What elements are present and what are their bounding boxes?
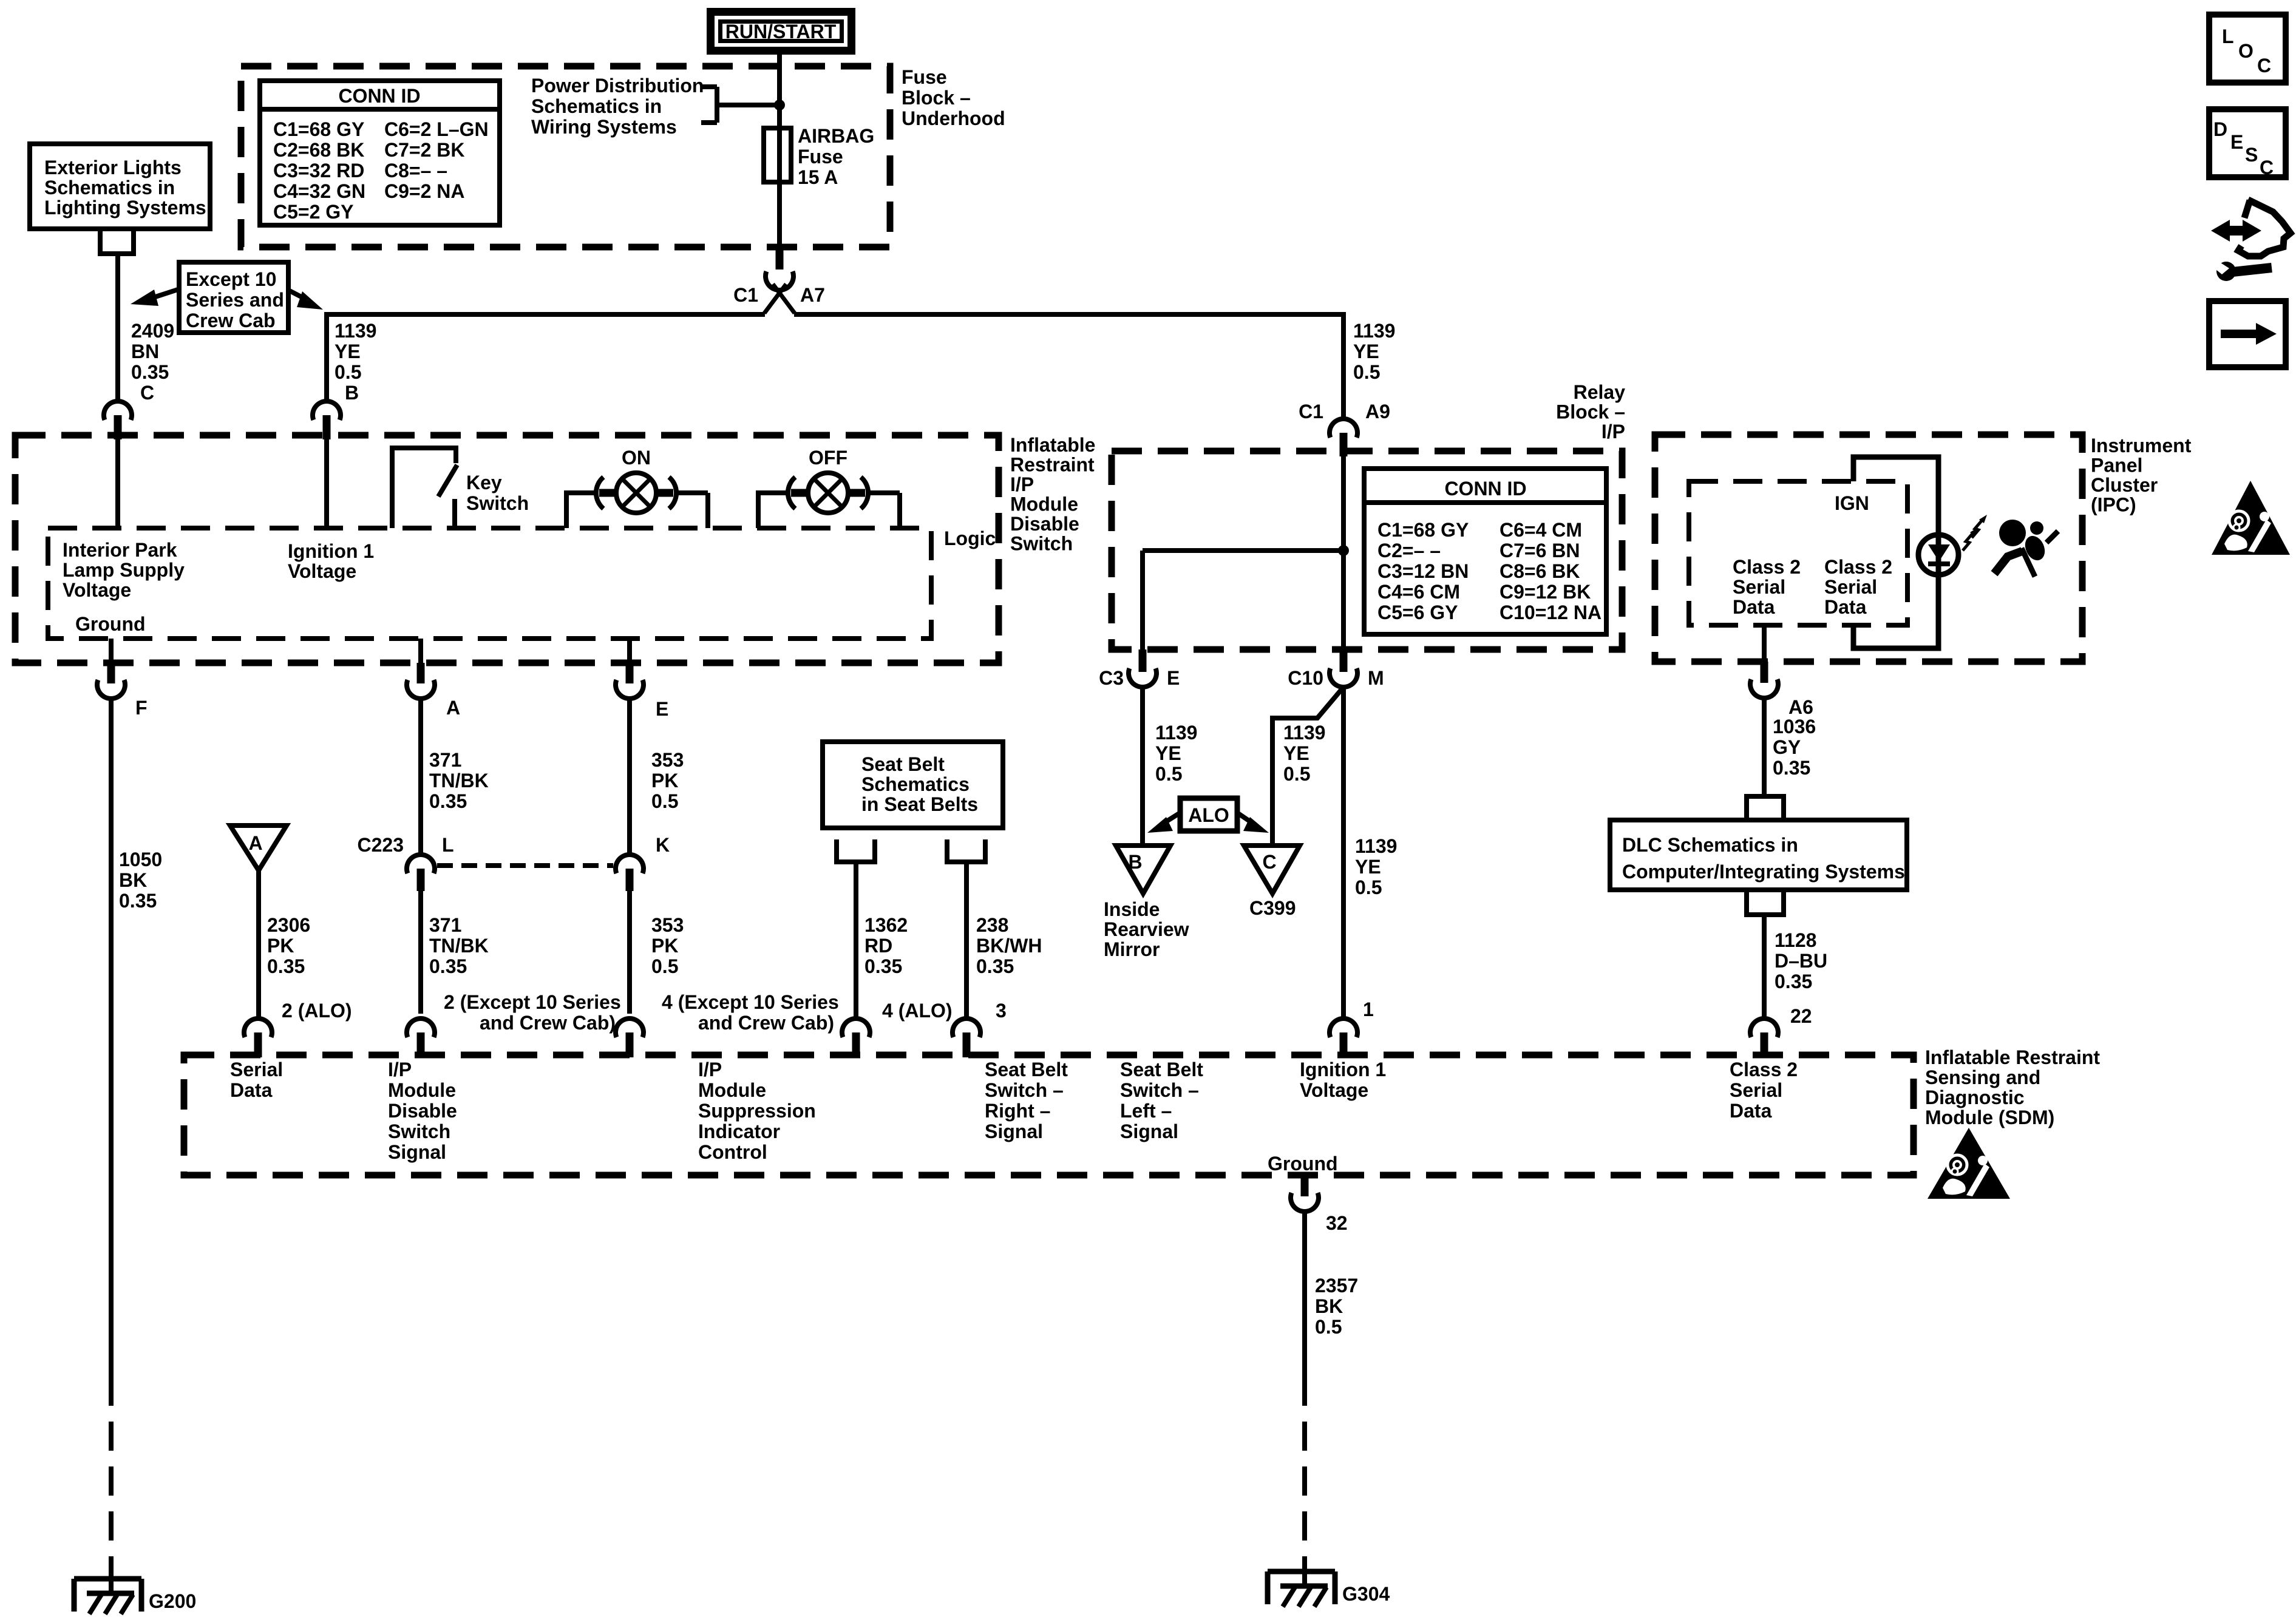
svg-text:Module (SDM): Module (SDM) <box>1925 1107 2054 1128</box>
note Power Distribution Schematics in Wiring Systems <box>531 75 704 138</box>
wire 353 PK lower <box>630 891 684 1014</box>
label Instrument Panel Cluster IPC <box>2091 435 2192 516</box>
svg-text:C6=4 CM: C6=4 CM <box>1500 519 1582 541</box>
svg-text:238: 238 <box>976 914 1008 936</box>
bracket below exterior lights box <box>100 229 134 254</box>
svg-text:353: 353 <box>651 914 684 936</box>
wire relay block internal vertical <box>1341 456 1346 649</box>
svg-text:Wiring Systems: Wiring Systems <box>531 116 677 138</box>
svg-text:GY: GY <box>1773 736 1801 758</box>
svg-text:YE: YE <box>1283 742 1309 764</box>
svg-text:Data: Data <box>1824 596 1867 618</box>
svg-text:Left –: Left – <box>1120 1100 1172 1122</box>
connector C10 cavity M out of relay block <box>1288 649 1384 689</box>
svg-text:Serial: Serial <box>1730 1079 1782 1101</box>
svg-text:I/P: I/P <box>1010 473 1034 495</box>
svg-text:Suppression: Suppression <box>698 1100 816 1122</box>
svg-text:Series and: Series and <box>186 289 284 311</box>
svg-text:Underhood: Underhood <box>902 107 1005 129</box>
arrow left from callout <box>131 289 180 306</box>
svg-text:YE: YE <box>335 341 361 362</box>
svg-text:353: 353 <box>651 749 684 771</box>
icon box DESC <box>2209 109 2286 178</box>
svg-text:Seat Belt: Seat Belt <box>1120 1059 1203 1080</box>
inner logic dashed box <box>48 528 931 639</box>
label Relay Block I/P <box>1556 381 1625 442</box>
svg-text:G304: G304 <box>1342 1583 1390 1605</box>
svg-text:0.35: 0.35 <box>429 790 467 812</box>
wire interior park lamp into logic <box>115 439 120 528</box>
svg-text:Fuse: Fuse <box>798 146 843 168</box>
wire 2409 BN drop <box>118 254 174 404</box>
svg-text:2 (ALO): 2 (ALO) <box>282 1000 352 1022</box>
pin label IP Module Disable Switch Signal <box>388 1059 457 1163</box>
connector C3 cavity E out of relay block <box>1099 649 1180 689</box>
svg-text:Switch –: Switch – <box>985 1079 1064 1101</box>
svg-text:0.35: 0.35 <box>864 955 902 977</box>
svg-text:0.5: 0.5 <box>335 361 361 383</box>
svg-text:E: E <box>1167 667 1180 689</box>
svg-text:1050: 1050 <box>119 849 162 870</box>
svg-text:PK: PK <box>651 935 678 957</box>
svg-text:Block –: Block – <box>1556 401 1625 423</box>
svg-text:O: O <box>2238 40 2254 62</box>
svg-text:0.35: 0.35 <box>1773 757 1810 779</box>
airbag warning LED <box>1918 535 1958 575</box>
svg-text:Class 2: Class 2 <box>1733 556 1801 578</box>
wire 371 TN/BK lower <box>421 891 489 1014</box>
dashed box Inflatable Restraint Sensing and Diagnostic Module <box>184 1055 1914 1175</box>
svg-text:371: 371 <box>429 914 461 936</box>
svg-text:Mirror: Mirror <box>1104 938 1160 960</box>
wire IPC lamp loop <box>1853 457 1938 648</box>
pin label Class 2 Serial Data SDM <box>1730 1059 1798 1122</box>
svg-text:Voltage: Voltage <box>1300 1079 1368 1101</box>
off-page triangle C C399 <box>1244 846 1300 893</box>
svg-text:C7=2 BK: C7=2 BK <box>384 139 465 161</box>
connector E out of disable switch <box>616 639 668 720</box>
svg-text:C: C <box>2260 157 2274 178</box>
svg-text:C5=2 GY: C5=2 GY <box>273 201 354 223</box>
dashed box Relay Block I/P <box>1112 451 1622 649</box>
svg-text:1: 1 <box>1363 998 1374 1020</box>
wire ignition 1 into logic <box>324 439 329 528</box>
callout box Except 10 Series and Crew Cab <box>179 262 288 333</box>
pin label Ignition 1 Voltage logic <box>288 540 374 582</box>
SDM airbag warning triangle <box>1927 1128 2010 1199</box>
icon diagnostic wrench <box>2211 200 2291 281</box>
wire 1036 GY <box>1764 698 1816 796</box>
svg-text:0.5: 0.5 <box>1315 1316 1342 1338</box>
svg-text:0.5: 0.5 <box>1155 763 1182 785</box>
svg-text:Disable: Disable <box>388 1100 457 1122</box>
bracket and junction dot to feed wire <box>701 87 785 123</box>
power feed box RUN/START <box>711 12 852 51</box>
svg-text:Relay: Relay <box>1574 381 1626 403</box>
pin label Ground logic <box>75 613 146 635</box>
svg-text:15 A: 15 A <box>798 166 838 188</box>
wire 2306 PK serial data <box>259 870 310 1019</box>
svg-text:Interior Park: Interior Park <box>63 539 177 561</box>
svg-text:0.5: 0.5 <box>1353 361 1380 383</box>
svg-text:and Crew Cab): and Crew Cab) <box>698 1012 834 1034</box>
svg-text:A9: A9 <box>1365 401 1390 422</box>
svg-text:Fuse: Fuse <box>902 66 947 88</box>
svg-text:I/P: I/P <box>388 1059 412 1080</box>
svg-text:Indicator: Indicator <box>698 1120 780 1142</box>
svg-text:Exterior Lights: Exterior Lights <box>44 157 182 178</box>
svg-text:2357: 2357 <box>1315 1275 1358 1297</box>
svg-text:C4=6 CM: C4=6 CM <box>1377 581 1460 603</box>
connector seat belt right into SDM <box>842 1000 953 1057</box>
svg-text:C6=2 L–GN: C6=2 L–GN <box>384 118 489 140</box>
pin label Ground SDM <box>1268 1153 1338 1175</box>
svg-text:Inside: Inside <box>1104 898 1160 920</box>
connector suppression indicator into SDM <box>616 991 839 1057</box>
svg-text:Inflatable Restraint: Inflatable Restraint <box>1925 1046 2100 1068</box>
svg-text:C8=– –: C8=– – <box>384 160 447 181</box>
pin label Interior Park Lamp Supply Voltage <box>63 539 185 601</box>
svg-text:Data: Data <box>1730 1100 1772 1122</box>
junction dot relay block <box>1338 545 1349 556</box>
wire 371 TN/BK upper <box>421 698 489 856</box>
svg-text:D: D <box>2213 118 2227 140</box>
svg-text:YE: YE <box>1353 341 1379 362</box>
svg-text:0.5: 0.5 <box>1355 876 1382 898</box>
svg-text:C399: C399 <box>1249 897 1296 919</box>
svg-text:BK: BK <box>1315 1295 1343 1317</box>
LED light rays <box>1963 515 1987 551</box>
svg-text:0.5: 0.5 <box>1283 763 1310 785</box>
indicator lamp ON <box>566 447 708 528</box>
svg-text:0.35: 0.35 <box>1775 971 1812 992</box>
wire ignition feed RUN/START to fuse <box>777 55 782 245</box>
pin label IP Module Suppression Indicator Control <box>698 1059 816 1163</box>
wire 1362 RD seat belt right <box>856 862 908 1019</box>
connector C1/A9 into relay block <box>1299 401 1390 456</box>
svg-text:22: 22 <box>1790 1005 1812 1027</box>
wire 1139 YE to mirror B <box>1143 687 1197 846</box>
pin label Ignition 1 Voltage SDM <box>1300 1059 1386 1101</box>
callout box ALO <box>1180 798 1237 831</box>
ground G304 <box>1268 1571 1390 1607</box>
bracket below seat belt box left <box>837 839 875 862</box>
svg-text:Module: Module <box>388 1079 456 1101</box>
svg-text:C: C <box>140 382 154 404</box>
svg-text:AIRBAG: AIRBAG <box>798 125 874 147</box>
label Inside Rearview Mirror <box>1104 898 1189 960</box>
bracket below DLC box <box>1747 890 1784 915</box>
svg-text:IGN: IGN <box>1835 492 1869 514</box>
svg-text:Panel: Panel <box>2091 455 2142 476</box>
svg-text:Inflatable: Inflatable <box>1010 434 1095 456</box>
svg-text:Instrument: Instrument <box>2091 435 2192 456</box>
svg-text:CONN ID: CONN ID <box>338 85 420 107</box>
svg-text:0.5: 0.5 <box>651 955 678 977</box>
svg-text:Lighting Systems: Lighting Systems <box>44 197 206 219</box>
svg-text:D–BU: D–BU <box>1775 950 1827 972</box>
svg-text:and Crew Cab): and Crew Cab) <box>480 1012 616 1034</box>
CONN ID table fuse block <box>260 81 500 225</box>
svg-text:C4=32 GN: C4=32 GN <box>273 180 365 202</box>
connector C223 cavity K <box>616 834 670 891</box>
svg-text:1036: 1036 <box>1773 716 1816 737</box>
dashed box Instrument Panel Cluster <box>1655 435 2082 662</box>
pin label Class 2 Serial Data left <box>1733 556 1801 618</box>
arrow ALO left <box>1147 813 1180 833</box>
svg-text:F: F <box>135 697 148 719</box>
reference box DLC Schematics <box>1610 820 1907 890</box>
pin label Serial Data <box>230 1059 283 1101</box>
wire 1050 BK ground run <box>111 698 162 1592</box>
svg-text:0.5: 0.5 <box>651 790 678 812</box>
svg-text:Serial: Serial <box>230 1059 283 1080</box>
right margin airbag warning triangle <box>2212 481 2290 555</box>
svg-text:Except 10: Except 10 <box>186 268 276 290</box>
svg-text:I/P: I/P <box>698 1059 722 1080</box>
svg-text:K: K <box>656 834 670 856</box>
svg-text:Power Distribution: Power Distribution <box>531 75 704 97</box>
svg-text:Serial: Serial <box>1824 576 1877 598</box>
svg-text:Class 2: Class 2 <box>1824 556 1892 578</box>
svg-text:Seat Belt: Seat Belt <box>861 753 945 775</box>
svg-text:Ignition 1: Ignition 1 <box>288 540 374 562</box>
svg-text:Data: Data <box>1733 596 1775 618</box>
fuse block underhood dashed box <box>241 66 890 247</box>
airbag person icon <box>1994 520 2058 577</box>
svg-text:C3=32 RD: C3=32 RD <box>273 160 364 181</box>
svg-text:Computer/Integrating Systems: Computer/Integrating Systems <box>1622 861 1905 883</box>
svg-text:C1=68 GY: C1=68 GY <box>1377 519 1469 541</box>
svg-text:Lamp Supply: Lamp Supply <box>63 559 185 581</box>
pin label Seat Belt Switch Left Signal <box>1120 1059 1203 1142</box>
svg-text:C2=– –: C2=– – <box>1377 540 1441 561</box>
svg-text:A7: A7 <box>800 284 825 306</box>
svg-text:C223: C223 <box>358 834 404 856</box>
connector IP module disable into SDM <box>407 991 621 1057</box>
svg-text:1139: 1139 <box>1283 722 1325 744</box>
svg-text:Class 2: Class 2 <box>1730 1059 1798 1080</box>
svg-text:Block –: Block – <box>902 87 971 109</box>
svg-text:Ignition 1: Ignition 1 <box>1300 1059 1386 1080</box>
svg-text:Switch: Switch <box>388 1120 450 1142</box>
svg-text:C10=12 NA: C10=12 NA <box>1500 602 1601 623</box>
svg-text:371: 371 <box>429 749 461 771</box>
svg-text:BK/WH: BK/WH <box>976 935 1042 957</box>
svg-text:2 (Except 10 Series: 2 (Except 10 Series <box>444 991 621 1013</box>
svg-text:C3: C3 <box>1099 667 1124 689</box>
svg-text:Right –: Right – <box>985 1100 1050 1122</box>
svg-text:Ground: Ground <box>75 613 146 635</box>
ground G200 <box>74 1579 196 1614</box>
svg-text:in Seat Belts: in Seat Belts <box>861 793 978 815</box>
svg-text:Data: Data <box>230 1079 273 1101</box>
svg-text:C: C <box>1262 851 1276 873</box>
svg-text:Signal: Signal <box>1120 1120 1178 1142</box>
svg-text:Module: Module <box>1010 493 1078 515</box>
svg-text:G200: G200 <box>149 1590 196 1612</box>
svg-text:2409: 2409 <box>131 320 174 342</box>
bracket into DLC box <box>1747 796 1784 820</box>
svg-text:1139: 1139 <box>1155 722 1197 744</box>
svg-text:TN/BK: TN/BK <box>429 770 489 792</box>
svg-text:C10: C10 <box>1288 667 1323 689</box>
svg-text:PK: PK <box>267 935 294 957</box>
svg-text:Switch: Switch <box>466 492 529 514</box>
svg-text:A6: A6 <box>1788 696 1813 718</box>
svg-text:C9=2 NA: C9=2 NA <box>384 180 465 202</box>
svg-text:C8=6 BK: C8=6 BK <box>1500 560 1580 582</box>
pin label Seat Belt Switch Right Signal <box>985 1059 1068 1142</box>
svg-text:A: A <box>248 832 262 854</box>
svg-text:Rearview: Rearview <box>1104 918 1189 940</box>
svg-text:C5=6 GY: C5=6 GY <box>1377 602 1458 623</box>
connector seat belt left into SDM <box>953 1000 1007 1057</box>
svg-text:RUN/START: RUN/START <box>725 21 837 42</box>
bracket below seat belt box right <box>947 839 985 862</box>
label C399 <box>1249 897 1296 919</box>
svg-text:B: B <box>345 382 359 404</box>
svg-text:Cluster: Cluster <box>2091 474 2158 496</box>
label Inflatable Restraint Sensing and Diagnostic Module SDM <box>1925 1046 2100 1128</box>
reference box Exterior Lights Schematics <box>30 144 210 229</box>
wire 1139 YE to C399 <box>1272 687 1343 846</box>
svg-text:1128: 1128 <box>1775 929 1816 951</box>
svg-text:Schematics: Schematics <box>861 773 970 795</box>
svg-text:Switch –: Switch – <box>1120 1079 1199 1101</box>
fuse AIRBAG 15 A <box>764 125 874 188</box>
svg-text:Control: Control <box>698 1141 767 1163</box>
svg-text:3: 3 <box>996 1000 1007 1022</box>
indicator lamp OFF <box>758 447 900 528</box>
wire 1128 D-BU <box>1764 915 1827 1020</box>
wire 238 BK/WH seat belt left <box>966 862 1042 1019</box>
connector serial data into SDM <box>244 1000 352 1057</box>
svg-text:PK: PK <box>651 770 678 792</box>
svg-text:C1: C1 <box>733 284 758 306</box>
svg-text:2306: 2306 <box>267 914 310 936</box>
svg-text:Seat Belt: Seat Belt <box>985 1059 1068 1080</box>
svg-text:Key: Key <box>466 472 502 493</box>
svg-text:Switch: Switch <box>1010 533 1073 555</box>
pin label IGN <box>1835 492 1869 514</box>
icon box arrow right <box>2209 301 2286 367</box>
svg-text:Diagnostic: Diagnostic <box>1925 1086 2025 1108</box>
svg-text:1139: 1139 <box>1353 320 1395 342</box>
off-page triangle B inside rearview mirror <box>1116 846 1170 893</box>
svg-text:Restraint: Restraint <box>1010 454 1095 476</box>
connector ignition 1 into SDM <box>1330 998 1374 1057</box>
svg-text:OFF: OFF <box>809 447 847 469</box>
svg-text:RD: RD <box>864 935 892 957</box>
svg-text:Module: Module <box>698 1079 766 1101</box>
svg-text:Schematics in: Schematics in <box>531 95 662 117</box>
svg-text:Schematics in: Schematics in <box>44 177 175 198</box>
svg-text:1362: 1362 <box>864 914 908 936</box>
svg-text:Signal: Signal <box>985 1120 1043 1142</box>
svg-text:0.35: 0.35 <box>976 955 1014 977</box>
svg-text:YE: YE <box>1155 742 1181 764</box>
svg-text:BN: BN <box>131 341 159 362</box>
svg-text:C: C <box>2257 55 2271 76</box>
svg-text:C9=12 BK: C9=12 BK <box>1500 581 1591 603</box>
svg-text:I/P: I/P <box>1601 421 1625 442</box>
off-page triangle A serial data <box>230 825 287 870</box>
wire relay block internal branch <box>1143 551 1343 649</box>
pin label Class 2 Serial Data right <box>1824 556 1892 618</box>
svg-text:C2=68 BK: C2=68 BK <box>273 139 364 161</box>
label Logic <box>944 527 996 549</box>
svg-text:Crew Cab: Crew Cab <box>186 310 276 331</box>
connector B into disable switch <box>313 401 341 439</box>
svg-text:TN/BK: TN/BK <box>429 935 489 957</box>
svg-text:0.35: 0.35 <box>119 890 157 912</box>
svg-text:32: 32 <box>1326 1212 1348 1234</box>
svg-text:4 (ALO): 4 (ALO) <box>882 1000 953 1022</box>
inner IPC dashed box <box>1689 481 1907 625</box>
wire label 1139 YE 0.5 ignition drop B <box>335 320 376 404</box>
svg-text:C3=12 BN: C3=12 BN <box>1377 560 1469 582</box>
connector A6 out of IPC <box>1750 625 1813 718</box>
svg-text:A: A <box>446 697 460 719</box>
connector A out of disable switch <box>407 639 460 719</box>
connector F out of disable switch <box>97 639 148 719</box>
svg-text:ALO: ALO <box>1188 804 1229 826</box>
wire label 1139 YE 0.5 relay drop <box>1353 320 1395 383</box>
arrow right from callout <box>288 290 323 310</box>
svg-text:4 (Except 10 Series: 4 (Except 10 Series <box>662 991 839 1013</box>
arrow ALO right <box>1237 813 1269 833</box>
svg-text:S: S <box>2245 144 2258 166</box>
svg-text:BK: BK <box>119 869 147 891</box>
svg-text:YE: YE <box>1355 856 1381 878</box>
wire bus left to ignition drop <box>327 314 765 401</box>
svg-text:B: B <box>1128 851 1142 873</box>
svg-text:1139: 1139 <box>335 320 376 342</box>
svg-text:0.35: 0.35 <box>131 361 169 383</box>
icon box LOC <box>2209 15 2286 83</box>
svg-text:Logic: Logic <box>944 527 996 549</box>
svg-text:CONN ID: CONN ID <box>1444 478 1526 500</box>
svg-text:Voltage: Voltage <box>288 560 356 582</box>
svg-text:Ground: Ground <box>1268 1153 1338 1175</box>
wire bus right to relay block drop <box>794 314 1343 419</box>
svg-text:0.35: 0.35 <box>429 955 467 977</box>
connector 32 ground out of SDM <box>1291 1175 1348 1234</box>
svg-text:0.35: 0.35 <box>267 955 305 977</box>
connector C1/A7 splice <box>733 245 825 313</box>
svg-text:L: L <box>2222 25 2234 47</box>
svg-text:DLC Schematics in: DLC Schematics in <box>1622 834 1798 856</box>
svg-text:Serial: Serial <box>1733 576 1785 598</box>
wire 1139 YE ignition to SDM <box>1343 687 1397 1020</box>
dashed connector tie line C223 <box>437 863 613 868</box>
svg-text:(IPC): (IPC) <box>2091 494 2136 516</box>
svg-text:C1: C1 <box>1299 401 1323 422</box>
reference box Seat Belt Schematics in Seat Belts <box>823 742 1003 828</box>
connector class 2 into SDM <box>1750 1005 1812 1057</box>
svg-text:E: E <box>2230 131 2243 153</box>
svg-text:M: M <box>1368 667 1384 689</box>
dashed box Inflatable Restraint IP Module Disable Switch <box>15 435 999 663</box>
svg-text:Voltage: Voltage <box>63 579 131 601</box>
key switch <box>392 448 529 528</box>
CONN ID table relay block <box>1364 469 1606 634</box>
svg-text:L: L <box>442 834 454 856</box>
svg-text:1139: 1139 <box>1355 835 1397 857</box>
svg-text:C1=68 GY: C1=68 GY <box>273 118 364 140</box>
svg-text:E: E <box>656 698 668 720</box>
